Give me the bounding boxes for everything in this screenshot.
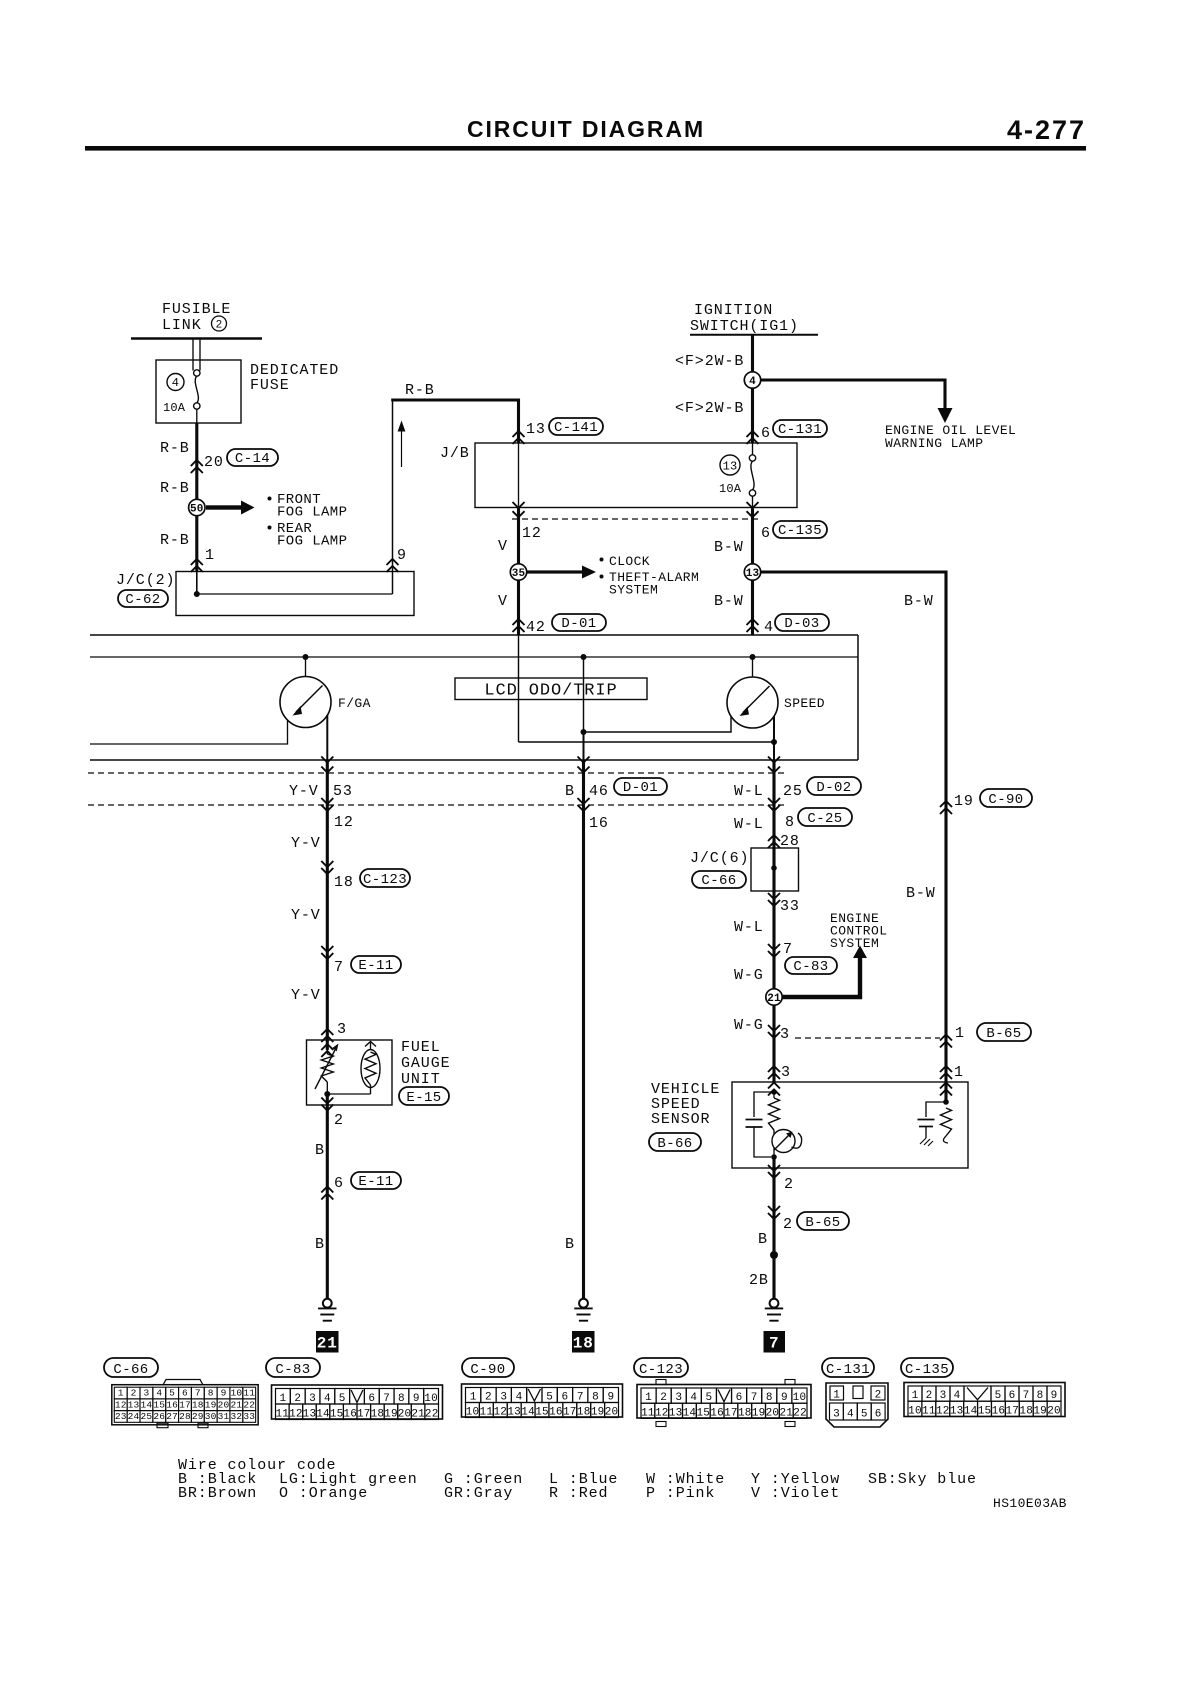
junction block J/B box: [475, 443, 797, 508]
svg-text:P :Pink: P :Pink: [646, 1485, 715, 1502]
svg-text:Y-V: Y-V: [291, 907, 321, 924]
svg-text:LCD ODO/TRIP: LCD ODO/TRIP: [484, 682, 617, 701]
fuse 13 in J/B: [720, 455, 740, 475]
splice 50: [189, 499, 205, 515]
svg-text:22: 22: [425, 1408, 439, 1420]
svg-text:1: 1: [833, 1390, 840, 1402]
wire Y-V from F/GA down: [326, 760, 329, 1050]
connector 13 C-141: [513, 431, 525, 437]
svg-text:30: 30: [205, 1411, 217, 1422]
sensor right capacitor to case ground: [926, 1102, 946, 1117]
junction dot speed out: [771, 739, 777, 745]
svg-text:32: 32: [230, 1411, 242, 1422]
fuse element: [194, 370, 200, 376]
svg-text:GR:Gray: GR:Gray: [444, 1485, 513, 1502]
svg-text:7: 7: [383, 1393, 390, 1405]
svg-text:9: 9: [397, 547, 407, 564]
wire V down to cluster: [517, 508, 520, 636]
svg-text:15: 15: [696, 1408, 710, 1420]
svg-text:13: 13: [526, 421, 546, 438]
splice 21 to engine control system: [766, 989, 782, 1005]
dashed boundary to B-65: [795, 1037, 940, 1039]
svg-text:FUSIBLE: FUSIBLE: [162, 301, 231, 318]
svg-text:24: 24: [128, 1411, 140, 1422]
svg-text:2: 2: [875, 1390, 882, 1402]
arrow to engine control system: [782, 958, 860, 997]
svg-text:3: 3: [143, 1388, 149, 1399]
svg-text:4: 4: [749, 376, 756, 388]
svg-text:7: 7: [1023, 1390, 1030, 1402]
dashed harness boundary 1: [88, 772, 786, 774]
svg-text:11: 11: [480, 1407, 494, 1419]
connector 42 D-01 into cluster: [513, 619, 525, 625]
splice 35 clock feed: [510, 564, 526, 580]
svg-text:CIRCUIT DIAGRAM: CIRCUIT DIAGRAM: [467, 116, 705, 142]
wire across J/C(2): [197, 593, 393, 595]
svg-text:W-G: W-G: [734, 967, 764, 984]
svg-text:9: 9: [221, 1388, 227, 1399]
wire V through cluster to speed branch: [518, 635, 520, 742]
sensor right resistor: [943, 1099, 949, 1105]
wire B below sensor: [772, 1157, 775, 1299]
fusible link bus bar: [131, 337, 262, 340]
svg-text:6: 6: [736, 1392, 743, 1404]
svg-text:V: V: [498, 593, 508, 610]
svg-text:6: 6: [761, 425, 771, 442]
svg-text:V: V: [498, 538, 508, 555]
svg-text:7: 7: [577, 1392, 584, 1404]
svg-text:15: 15: [153, 1399, 165, 1410]
svg-text:13: 13: [303, 1408, 317, 1420]
svg-text:29: 29: [192, 1411, 204, 1422]
splice 13 B-W: [744, 564, 760, 580]
svg-text:FOG LAMP: FOG LAMP: [277, 534, 347, 550]
svg-text:16: 16: [343, 1408, 357, 1420]
svg-text:IGNITION: IGNITION: [694, 302, 773, 319]
svg-text:B: B: [565, 1236, 575, 1253]
svg-text:SWITCH(IG1): SWITCH(IG1): [690, 318, 799, 335]
connector label C-123: [634, 1358, 688, 1377]
svg-text:10: 10: [908, 1406, 922, 1418]
connector label E-15: [399, 1087, 449, 1105]
ground symbol left: [323, 1299, 332, 1308]
svg-text:15: 15: [535, 1407, 549, 1419]
svg-text:10: 10: [793, 1392, 807, 1404]
svg-text:23: 23: [115, 1411, 127, 1422]
svg-text:14: 14: [521, 1407, 535, 1419]
connector C-66 pinout 33pin: [163, 1380, 203, 1386]
wire B down from LCD: [583, 732, 585, 760]
svg-text:8: 8: [1037, 1390, 1044, 1402]
splice 4: [744, 372, 760, 388]
pin 2 below sensor: [768, 1165, 780, 1171]
branch to engine oil level warning lamp: [761, 380, 945, 409]
svg-text:C-131: C-131: [826, 1362, 870, 1378]
svg-text:Y-V: Y-V: [291, 987, 321, 1004]
svg-text:C-62: C-62: [125, 592, 160, 608]
wire from SPEED down: [773, 716, 775, 760]
connector 19 C-90: [940, 801, 952, 807]
junction connector J/C(2) box: [176, 572, 414, 616]
svg-text:C-135: C-135: [905, 1362, 949, 1378]
svg-text:2: 2: [216, 320, 223, 332]
svg-text:20: 20: [766, 1408, 780, 1420]
svg-text:B-65: B-65: [805, 1215, 840, 1231]
svg-text:1: 1: [470, 1392, 477, 1404]
svg-text:Y-V: Y-V: [291, 835, 321, 852]
svg-text:3: 3: [309, 1393, 316, 1405]
wire from ignition switch: [751, 335, 754, 443]
svg-text:SENSOR: SENSOR: [651, 1111, 710, 1128]
svg-text:4: 4: [324, 1393, 331, 1405]
svg-text:B: B: [315, 1236, 325, 1253]
ground id 18: [572, 1331, 595, 1353]
svg-text:12: 12: [289, 1408, 303, 1420]
ground symbol middle: [579, 1299, 588, 1308]
svg-text:2: 2: [485, 1392, 492, 1404]
svg-text:1: 1: [118, 1388, 124, 1399]
svg-text:2: 2: [926, 1390, 933, 1402]
svg-text:B-66: B-66: [657, 1136, 692, 1152]
svg-text:B-W: B-W: [714, 539, 744, 556]
connector 7 E-11: [321, 946, 333, 952]
svg-text:1: 1: [912, 1390, 919, 1402]
svg-text:C-90: C-90: [988, 792, 1023, 808]
dedicated fuse box: [156, 360, 241, 423]
svg-text:6: 6: [562, 1392, 569, 1404]
junction dot in J/C(2): [194, 591, 200, 597]
wire R-B corner to J/B: [391, 400, 518, 443]
svg-text:11: 11: [275, 1408, 289, 1420]
svg-text:C-141: C-141: [554, 420, 598, 436]
svg-text:18: 18: [371, 1408, 385, 1420]
svg-text:18: 18: [334, 874, 354, 891]
svg-text:20: 20: [1047, 1406, 1061, 1418]
svg-text:WARNING LAMP: WARNING LAMP: [885, 436, 983, 451]
svg-text:26: 26: [153, 1411, 165, 1422]
svg-text:1: 1: [280, 1393, 287, 1405]
svg-text:C-83: C-83: [793, 959, 828, 975]
svg-text:20: 20: [398, 1408, 412, 1420]
svg-text:19: 19: [205, 1399, 217, 1410]
svg-text:13: 13: [723, 460, 738, 474]
svg-text:SYSTEM: SYSTEM: [609, 583, 658, 598]
svg-text:5: 5: [339, 1393, 346, 1405]
svg-text:B-W: B-W: [906, 885, 936, 902]
svg-text:C-83: C-83: [275, 1362, 310, 1378]
svg-text:20: 20: [204, 454, 224, 471]
svg-text:6: 6: [368, 1393, 375, 1405]
svg-text:5: 5: [995, 1390, 1002, 1402]
connector C-131 pinout 6pin: [826, 1383, 888, 1427]
svg-text:B: B: [758, 1231, 768, 1248]
connector label C-83: [266, 1358, 320, 1377]
sensor pullup resistor: [773, 1089, 775, 1098]
wire up from J/C(2) pin 9: [392, 400, 394, 594]
svg-text:12: 12: [655, 1408, 669, 1420]
svg-text:5: 5: [546, 1392, 553, 1404]
svg-text:14: 14: [683, 1408, 697, 1420]
svg-text:4: 4: [172, 376, 179, 390]
svg-text:FOG LAMP: FOG LAMP: [277, 505, 347, 521]
svg-text:25: 25: [141, 1411, 153, 1422]
svg-text:F/GA: F/GA: [338, 696, 371, 711]
svg-text:18: 18: [738, 1408, 752, 1420]
svg-text:C-90: C-90: [470, 1362, 505, 1378]
svg-text:17: 17: [357, 1408, 371, 1420]
wire V through J/B: [518, 443, 520, 508]
svg-text:R-B: R-B: [160, 480, 190, 497]
svg-text:14: 14: [316, 1408, 330, 1420]
svg-text:3: 3: [781, 1064, 791, 1081]
svg-text:6: 6: [875, 1409, 882, 1421]
svg-text:SB:Sky blue: SB:Sky blue: [868, 1471, 977, 1488]
svg-text:W-L: W-L: [734, 919, 764, 936]
svg-text:22: 22: [243, 1399, 255, 1410]
svg-text:35: 35: [512, 568, 526, 580]
ground id 21: [316, 1331, 339, 1353]
arrow to clock and theft-alarm: [527, 570, 583, 573]
arrow to fog lamps: [206, 505, 241, 509]
svg-text:C-66: C-66: [113, 1362, 148, 1378]
svg-text:18: 18: [1019, 1406, 1033, 1418]
connector 12 below J/B: [513, 502, 525, 508]
svg-text:J/C(6): J/C(6): [690, 850, 749, 867]
svg-text:2: 2: [131, 1388, 137, 1399]
svg-text:J/C(2): J/C(2): [116, 572, 175, 589]
svg-text:2: 2: [784, 1176, 794, 1193]
connector 6 C-131: [747, 431, 759, 437]
svg-text:11: 11: [922, 1406, 936, 1418]
svg-text:9: 9: [781, 1392, 788, 1404]
svg-text:C-123: C-123: [363, 872, 407, 888]
svg-text:4: 4: [156, 1388, 162, 1399]
svg-text:2: 2: [783, 1216, 793, 1233]
svg-text:8: 8: [398, 1393, 405, 1405]
svg-text:D-02: D-02: [816, 780, 851, 796]
svg-text:LINK: LINK: [162, 317, 202, 334]
svg-text:42: 42: [526, 619, 546, 636]
wire W-L from SPEED down: [772, 760, 775, 1050]
fuel sender oval resistor: [365, 1042, 376, 1047]
svg-text:8: 8: [592, 1392, 599, 1404]
svg-text:15: 15: [978, 1406, 992, 1418]
svg-text:<F>2W-B: <F>2W-B: [675, 400, 744, 417]
ground symbol right: [770, 1299, 779, 1308]
connector label C-62: [118, 590, 168, 607]
label CLOCK THEFT-ALARM SYSTEM: [600, 558, 604, 562]
connector C-123 pinout 22pin: [637, 1385, 811, 1419]
svg-text:D-01: D-01: [561, 616, 596, 632]
svg-text:25: 25: [783, 783, 803, 800]
svg-text:10A: 10A: [719, 482, 742, 496]
svg-text:6: 6: [182, 1388, 188, 1399]
junction dot emitter: [771, 1154, 777, 1160]
svg-text:7: 7: [769, 1335, 780, 1353]
ground id 7: [764, 1331, 786, 1353]
svg-text:5: 5: [169, 1388, 175, 1399]
svg-text:C-123: C-123: [639, 1362, 683, 1378]
svg-text:16: 16: [166, 1399, 178, 1410]
svg-text:4: 4: [516, 1392, 523, 1404]
svg-text:4-277: 4-277: [1007, 115, 1086, 145]
case ground hatch: [920, 1138, 933, 1146]
svg-text:19: 19: [591, 1407, 605, 1419]
svg-text:12: 12: [522, 525, 542, 542]
svg-text:50: 50: [190, 503, 204, 515]
sensor transistor: [773, 1130, 775, 1135]
svg-text:12: 12: [334, 814, 354, 831]
label REAR FOG LAMP: [268, 526, 272, 530]
svg-text:R-B: R-B: [160, 440, 190, 457]
svg-text:13: 13: [128, 1399, 140, 1410]
svg-text:20: 20: [605, 1407, 619, 1419]
svg-text:17: 17: [179, 1399, 191, 1410]
svg-text:4: 4: [847, 1409, 854, 1421]
svg-text:SYSTEM: SYSTEM: [830, 936, 879, 951]
svg-text:19: 19: [752, 1408, 766, 1420]
sensor capacitor: [754, 1092, 774, 1117]
svg-text:E-11: E-11: [358, 1174, 393, 1190]
svg-text:C-66: C-66: [701, 873, 736, 889]
svg-text:3: 3: [337, 1021, 347, 1038]
svg-text:R :Red: R :Red: [549, 1485, 608, 1502]
svg-text:11: 11: [243, 1388, 255, 1399]
svg-text:6: 6: [761, 525, 771, 542]
svg-text:9: 9: [1051, 1390, 1058, 1402]
svg-text:J/B: J/B: [440, 445, 470, 462]
wire B down to ground: [326, 1094, 329, 1299]
svg-text:GAUGE: GAUGE: [401, 1055, 451, 1072]
svg-text:13: 13: [950, 1406, 964, 1418]
junction dot 2B: [770, 1251, 778, 1259]
connector label C-131: [822, 1358, 874, 1377]
svg-text:21: 21: [230, 1399, 242, 1410]
speedometer SPEED: [752, 657, 754, 677]
svg-text:10: 10: [230, 1388, 242, 1399]
vehicle speed sensor box: [732, 1082, 968, 1168]
svg-text:53: 53: [333, 783, 353, 800]
connector 4 D-03 into cluster: [747, 619, 759, 625]
svg-text:11: 11: [641, 1408, 655, 1420]
svg-text:E-11: E-11: [358, 958, 393, 974]
svg-text:3: 3: [780, 1026, 790, 1043]
svg-text:B: B: [565, 783, 575, 800]
wire LCD to speedometer: [584, 716, 732, 732]
svg-text:C-25: C-25: [807, 811, 842, 827]
label FRONT FOG LAMP: [268, 497, 272, 501]
connector C-83 pinout 22pin: [272, 1385, 443, 1419]
connector 20 C-14: [191, 460, 203, 466]
svg-text:W-L: W-L: [734, 816, 764, 833]
svg-text:33: 33: [780, 898, 800, 915]
svg-text:2B: 2B: [749, 1272, 769, 1289]
svg-text:15: 15: [330, 1408, 344, 1420]
svg-text:17: 17: [563, 1407, 577, 1419]
connector pins 53/12: [321, 757, 333, 763]
dashed connector boundary: [512, 518, 758, 520]
svg-text:20: 20: [218, 1399, 230, 1410]
svg-text:W-G: W-G: [734, 1017, 764, 1034]
svg-text:7: 7: [783, 941, 793, 958]
header rule: [85, 146, 1086, 151]
svg-text:6: 6: [334, 1175, 344, 1192]
svg-text:SPEED: SPEED: [784, 696, 825, 711]
svg-text:C-14: C-14: [235, 451, 270, 467]
svg-text:5: 5: [706, 1392, 713, 1404]
svg-text:12: 12: [115, 1399, 127, 1410]
svg-text:C-135: C-135: [778, 523, 822, 539]
svg-text:14: 14: [141, 1399, 153, 1410]
svg-text:6: 6: [1009, 1390, 1016, 1402]
svg-text:16: 16: [589, 815, 609, 832]
LCD ODO/TRIP box: [455, 678, 647, 700]
connector label C-90: [462, 1358, 514, 1377]
svg-text:21: 21: [317, 1335, 338, 1353]
svg-text:18: 18: [577, 1407, 591, 1419]
svg-text:R-B: R-B: [160, 532, 190, 549]
connector 7 C-83: [768, 944, 780, 950]
svg-text:7: 7: [195, 1388, 201, 1399]
svg-text:9: 9: [413, 1393, 420, 1405]
fuel gauge unit box: [307, 1040, 393, 1105]
junction dot fuel gauge: [324, 1091, 330, 1097]
connector label C-66: [104, 1358, 158, 1377]
svg-text:2: 2: [334, 1112, 344, 1129]
connector 6 E-11: [321, 1187, 333, 1193]
connector C-135 pinout 20pin: [904, 1383, 1065, 1417]
connector label C-135: [901, 1358, 953, 1377]
wire W-L / W-G: [772, 1050, 775, 1082]
svg-text:FUEL: FUEL: [401, 1039, 441, 1056]
svg-text:B-65: B-65: [986, 1026, 1021, 1042]
svg-text:<F>2W-B: <F>2W-B: [675, 353, 744, 370]
svg-text:W-L: W-L: [734, 783, 764, 800]
svg-text:12: 12: [493, 1407, 507, 1419]
svg-text:21: 21: [767, 993, 781, 1005]
pin 2 below fuel gauge unit: [321, 1098, 333, 1104]
svg-text:4: 4: [690, 1392, 697, 1404]
junction dot LCD: [581, 654, 587, 660]
svg-text:UNIT: UNIT: [401, 1071, 441, 1088]
svg-text:O :Orange: O :Orange: [279, 1485, 368, 1502]
cluster internal supply bus: [90, 656, 858, 658]
svg-text:8: 8: [785, 814, 795, 831]
svg-text:2: 2: [294, 1393, 301, 1405]
connector 1 B-65 right wire: [940, 1035, 952, 1041]
junction connector J/C(6): [751, 848, 799, 891]
svg-text:E-15: E-15: [406, 1090, 441, 1106]
svg-text:17: 17: [724, 1408, 738, 1420]
svg-text:10: 10: [424, 1393, 438, 1405]
svg-text:14: 14: [964, 1406, 978, 1418]
pin 33 below J/C(6): [768, 893, 780, 899]
wire B-W from J/B down: [751, 508, 754, 636]
connector 18 C-123: [321, 861, 333, 867]
svg-text:10: 10: [466, 1407, 480, 1419]
svg-text:R-B: R-B: [405, 382, 435, 399]
svg-text:2: 2: [660, 1392, 667, 1404]
svg-text:4: 4: [954, 1390, 961, 1402]
svg-text:8: 8: [766, 1392, 773, 1404]
svg-text:18: 18: [192, 1399, 204, 1410]
svg-text:BR:Brown: BR:Brown: [178, 1485, 257, 1502]
svg-text:13: 13: [746, 568, 760, 580]
wire from F/GA to left: [90, 720, 288, 744]
svg-text:19: 19: [1033, 1406, 1047, 1418]
wire into J/C(2): [196, 572, 198, 595]
svg-text:16: 16: [710, 1408, 724, 1420]
